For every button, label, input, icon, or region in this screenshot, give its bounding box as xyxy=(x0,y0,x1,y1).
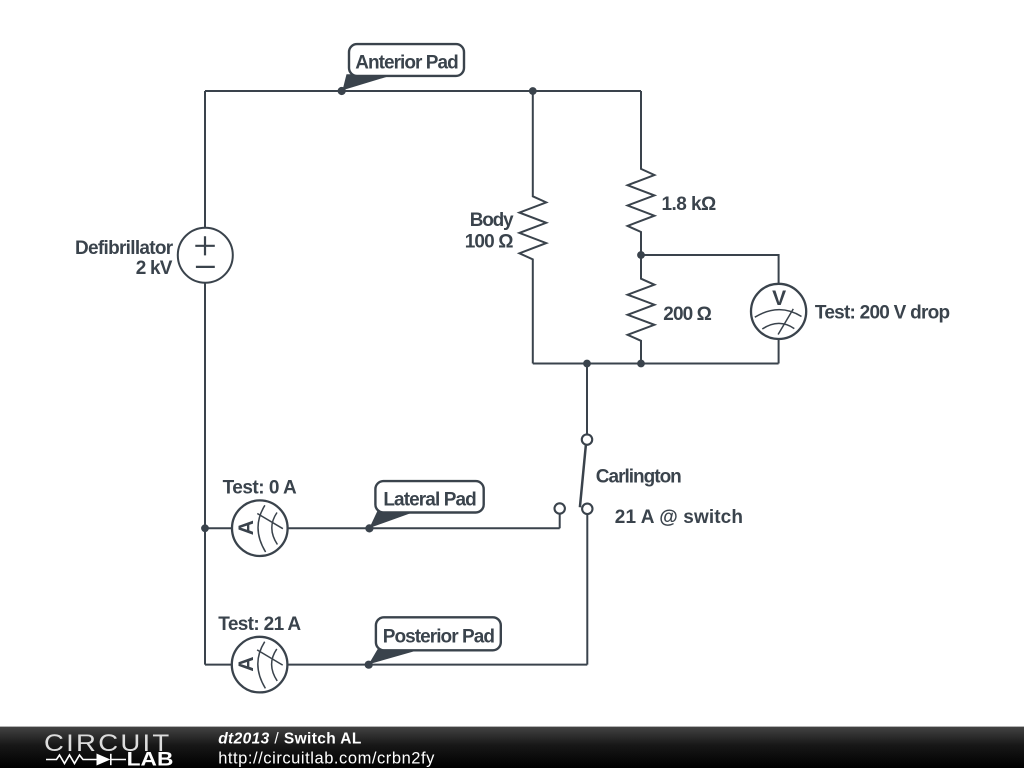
wire switch left throw drop xyxy=(559,514,561,529)
svg-text:1.8 kΩ: 1.8 kΩ xyxy=(662,194,717,215)
svg-text:Body: Body xyxy=(470,210,514,231)
svg-text:Anterior Pad: Anterior Pad xyxy=(355,53,458,74)
flag Lateral Pad box xyxy=(375,481,483,512)
wire bottom rail left of ammeter AM2 xyxy=(205,664,232,666)
wire junction to voltmeter top xyxy=(641,255,779,284)
footer logo resistor and diode glyph xyxy=(46,754,126,765)
svg-text:Test: 21 A: Test: 21 A xyxy=(218,614,301,635)
flag Lateral Pad tail xyxy=(369,511,417,528)
ammeter AM2 xyxy=(232,637,288,693)
flag Anterior Pad box xyxy=(349,44,464,76)
svg-text:A: A xyxy=(235,657,258,672)
wire left rail upper xyxy=(204,91,206,228)
switch SW1 right throw terminal xyxy=(582,504,592,514)
svg-text:dt2013 / Switch AL: dt2013 / Switch AL xyxy=(218,731,362,748)
junction node posterior pad anchor xyxy=(365,661,373,669)
footer bar xyxy=(0,727,1024,768)
svg-text:Posterior Pad: Posterior Pad xyxy=(383,626,495,647)
svg-text:V: V xyxy=(772,287,786,310)
switch SW1 left throw terminal xyxy=(555,503,565,513)
svg-text:Lateral Pad: Lateral Pad xyxy=(383,490,476,511)
svg-text:Defibrillator: Defibrillator xyxy=(75,238,174,259)
junction node on top rail at Body resistor xyxy=(529,87,537,95)
svg-text:Test: 200 V drop: Test: 200 V drop xyxy=(815,302,950,323)
wire mid rail left of ammeter AM1 xyxy=(205,527,232,529)
voltage source V1 labels xyxy=(75,238,174,279)
junction node switch drop on rail y363 xyxy=(583,360,591,368)
voltmeter MV1 xyxy=(751,284,806,339)
switch SW1 common terminal xyxy=(582,434,592,444)
resistor R2 Body 100 ohm xyxy=(519,91,546,364)
voltage source V1 Defibrillator 2 kV xyxy=(178,228,233,283)
wire middle rail y363 xyxy=(533,363,779,365)
resistor R2 label Body 100 ohm xyxy=(465,210,514,253)
svg-text:LAB: LAB xyxy=(127,749,174,768)
wire voltmeter bottom xyxy=(778,339,780,364)
svg-text:21 A @ switch: 21 A @ switch xyxy=(615,507,743,528)
svg-text:2 kV: 2 kV xyxy=(136,258,173,279)
wire switch right throw drop xyxy=(586,514,588,665)
wire top rail xyxy=(205,90,641,92)
svg-text:100 Ω: 100 Ω xyxy=(465,232,514,253)
resistor R1 1.8 kohm xyxy=(628,91,655,255)
flag Posterior Pad box xyxy=(376,617,501,650)
wire mid rail right of ammeter AM1 xyxy=(288,527,560,529)
wire switch common drop xyxy=(586,364,588,435)
resistor R3 200 ohm xyxy=(628,255,655,364)
junction node R3 bottom on rail y363 xyxy=(637,360,645,368)
flag Posterior Pad tail xyxy=(369,649,424,665)
junction node between R1 and R3 to voltmeter xyxy=(637,251,645,259)
junction node anterior pad anchor xyxy=(338,87,346,95)
wire left rail lower xyxy=(204,283,206,665)
junction node lateral pad anchor xyxy=(365,524,373,532)
svg-text:A: A xyxy=(235,520,258,535)
wire bottom rail right of ammeter AM2 xyxy=(287,664,587,666)
flag Anterior Pad tail xyxy=(343,74,396,90)
svg-text:Carlington: Carlington xyxy=(596,466,681,487)
svg-text:Test: 0 A: Test: 0 A xyxy=(223,477,297,498)
ammeter AM1 xyxy=(232,500,288,556)
switch SW1 blade xyxy=(580,445,586,508)
svg-text:200 Ω: 200 Ω xyxy=(663,304,711,325)
svg-text:http://circuitlab.com/crbn2fy: http://circuitlab.com/crbn2fy xyxy=(218,750,435,768)
junction node left rail to AM1 branch xyxy=(201,524,209,532)
